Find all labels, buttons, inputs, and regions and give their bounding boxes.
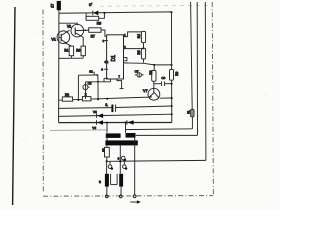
wire long vertical 2	[196, 2, 198, 135]
wire hook rail	[78, 70, 98, 76]
transformer winding W1	[105, 174, 109, 187]
svg-text:S2: S2	[105, 60, 109, 64]
transistor V1	[51, 30, 69, 44]
output arrow	[130, 200, 141, 203]
fuse F2	[101, 145, 109, 157]
wire top rail	[59, 12, 172, 13]
enclosure dashed border right	[212, 2, 213, 196]
wire	[106, 137, 108, 140]
resistor R7	[89, 28, 108, 39]
resistor R4	[137, 31, 146, 48]
svg-text:R4: R4	[137, 34, 141, 38]
wire right vertical	[171, 12, 173, 70]
svg-text:R5: R5	[137, 50, 141, 54]
wire IC pin to R4	[124, 32, 142, 37]
pin stub left lower	[101, 68, 108, 72]
faint line	[50, 129, 107, 132]
node junction	[103, 12, 105, 14]
wire down right	[97, 75, 99, 99]
transformer bar T1a	[106, 133, 121, 138]
svg-text:C8: C8	[161, 76, 165, 80]
svg-text:V6: V6	[92, 126, 96, 130]
svg-text:3.: 3.	[105, 103, 108, 107]
resistor R1	[64, 44, 73, 59]
resistor R3	[76, 36, 85, 58]
wire drop to transformer 2	[125, 123, 127, 133]
svg-text:F2: F2	[101, 148, 105, 152]
wire rail with diodes V6 V8	[59, 120, 172, 130]
pin number labels	[119, 34, 127, 79]
svg-text:V1: V1	[51, 37, 56, 41]
svg-text:C7: C7	[135, 69, 139, 73]
resistor R10	[62, 93, 72, 101]
svg-text:R1: R1	[64, 49, 68, 53]
enclosure dashed border bottom	[43, 195, 213, 198]
capacitor C7 (symbol)	[135, 69, 144, 77]
transistor V7	[143, 88, 160, 100]
svg-text:V7: V7	[143, 89, 148, 93]
enclosure dashed border left	[42, 10, 44, 194]
op-amp U1 (IC D1)	[107, 35, 124, 79]
wire W1 to ground rail	[106, 187, 108, 197]
wire W2 to ground rail	[120, 187, 122, 197]
svg-text:o': o'	[89, 2, 92, 7]
svg-text:V2: V2	[67, 24, 71, 28]
pin stub left bottom	[104, 78, 108, 82]
resistor R11	[82, 93, 91, 101]
scan speckle	[3, 6, 272, 208]
wire drop to transformer	[106, 123, 108, 133]
transformer core U lines	[111, 174, 118, 185]
wire right vertical lower	[171, 80, 173, 122]
wire down to rail	[77, 75, 79, 100]
trimmer C5	[83, 82, 92, 99]
wire rail with capacitor C3	[59, 103, 172, 112]
transistor V2	[67, 24, 84, 37]
pin hook	[124, 58, 127, 61]
capacitor C8	[154, 76, 172, 86]
transformer winding W2	[119, 174, 123, 187]
svg-text:u: u	[99, 180, 101, 184]
svg-text:S1: S1	[89, 70, 93, 74]
resistor R8	[149, 64, 156, 89]
svg-text:R9: R9	[175, 71, 179, 75]
wire rail y135	[136, 134, 198, 136]
svg-text:V5: V5	[93, 110, 97, 114]
wire fuse node to W1	[106, 161, 108, 174]
wire base rail with resistors	[59, 97, 149, 100]
node junction	[170, 11, 172, 13]
svg-text:R6: R6	[97, 22, 101, 26]
socket X2	[108, 161, 113, 169]
svg-text:C5: C5	[88, 82, 92, 86]
svg-text:8: 8	[103, 39, 105, 43]
socket X1	[118, 156, 127, 161]
resistor R5	[137, 48, 146, 62]
pin stub bottom C6	[117, 79, 124, 89]
wire V2 collector to R7	[83, 29, 89, 31]
wire emitter to right	[160, 97, 172, 99]
wire IC pin	[124, 48, 144, 50]
wire long vertical 3	[204, 2, 207, 160]
svg-text:R8: R8	[149, 70, 153, 74]
resistor R6 (parallel with diode)	[86, 13, 104, 26]
svg-text:R2: R2	[65, 93, 69, 97]
wire socket rail	[107, 159, 206, 162]
wire left rail	[58, 13, 60, 122]
pin stub left	[103, 39, 108, 43]
resistor R9	[170, 69, 180, 80]
wire core bar to W2	[119, 145, 121, 173]
wire emitter rail	[59, 57, 83, 59]
svg-text:D1: D1	[111, 55, 117, 62]
transformer core bar	[105, 140, 137, 145]
pin stub bottom	[110, 79, 112, 82]
wire horizontal y82	[86, 81, 111, 83]
svg-text:R7: R7	[91, 35, 95, 39]
enclosure dashed border top (faint)	[100, 4, 212, 7]
wire right vertical from bar	[134, 137, 136, 195]
wire	[58, 10, 60, 13]
socket X3	[123, 161, 128, 170]
capacitor C1 (black bar top-left)	[50, 1, 61, 10]
svg-text:17: 17	[50, 4, 54, 8]
wire fuse to socket rail	[106, 157, 108, 161]
svg-text:R3: R3	[76, 49, 80, 53]
svg-text:3: 3	[101, 68, 103, 72]
transformer bar T1b	[126, 133, 136, 138]
diode V4	[93, 11, 99, 16]
svg-text:F1: F1	[186, 110, 190, 114]
wire rail to node	[124, 63, 172, 65]
wire rail y129	[126, 128, 193, 131]
wire rail with diode V5	[59, 110, 172, 118]
paper fold line	[13, 7, 15, 205]
fuse F1 on vertical	[186, 2, 194, 129]
wire to V2 base	[59, 23, 78, 25]
svg-text:3: 3	[118, 156, 120, 160]
